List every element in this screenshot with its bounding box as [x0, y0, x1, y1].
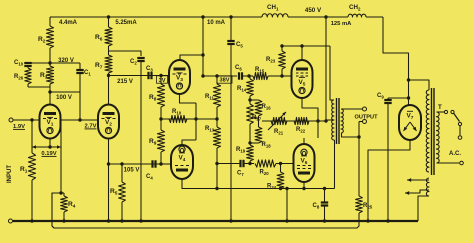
output transformer secondary — [341, 109, 343, 133]
AC terminal upper — [458, 126, 462, 139]
resistor R19 — [236, 145, 253, 165]
output transformer core — [337, 98, 340, 144]
wire secondary bottom — [342, 133, 361, 139]
resistor R5 — [110, 162, 125, 222]
svg-text:C1: C1 — [84, 70, 91, 77]
svg-text:C8: C8 — [313, 203, 320, 210]
node 320V wire — [29, 58, 80, 65]
wire V2 grid — [61, 118, 98, 193]
wire R26 return — [28, 86, 50, 88]
resistor R9 — [149, 117, 165, 165]
label 450 V — [305, 7, 322, 14]
resistor R13 — [205, 117, 221, 188]
svg-text:C3: C3 — [146, 66, 153, 73]
wire V5 grid — [282, 75, 292, 77]
svg-text:R18: R18 — [262, 142, 272, 149]
switch — [444, 110, 461, 125]
label 2.7V — [85, 124, 97, 130]
resistor R16 — [255, 100, 271, 127]
wire C6 to R15 — [243, 74, 253, 77]
svg-text:T: T — [438, 104, 442, 111]
output transformer primary — [332, 100, 334, 140]
resistor R7 — [95, 55, 112, 80]
svg-text:C10: C10 — [14, 60, 24, 67]
svg-text:C6: C6 — [235, 65, 242, 72]
wire V5 cathode — [302, 98, 320, 138]
svg-text:R19: R19 — [236, 147, 246, 154]
svg-text:R14: R14 — [237, 86, 247, 93]
svg-text:R22: R22 — [296, 127, 306, 134]
output terminal bottom — [359, 120, 367, 124]
wire C7-R20 — [245, 163, 255, 165]
wire V4 plate — [182, 179, 335, 190]
resistor R15 — [253, 67, 284, 80]
svg-text:100 V: 100 V — [56, 95, 72, 101]
svg-text:C5: C5 — [236, 42, 243, 49]
triode V3 — [169, 60, 190, 94]
wire R10 row — [161, 117, 217, 120]
svg-text:R11: R11 — [205, 94, 214, 101]
power transformer core — [432, 88, 435, 175]
svg-text:10 mA: 10 mA — [207, 20, 226, 26]
wire NFB line — [52, 193, 359, 228]
svg-text:R16: R16 — [262, 104, 272, 111]
wire rectifier to transformer — [407, 78, 429, 90]
ground terminal — [9, 219, 13, 223]
power transformer HT secondary — [426, 90, 429, 172]
svg-text:215 V: 215 V — [117, 79, 133, 85]
wire C2 branch — [109, 51, 142, 56]
triode V4 — [171, 145, 193, 179]
label A.C. — [449, 151, 461, 157]
svg-text:C9: C9 — [377, 93, 384, 100]
wire V5 plate rail — [282, 44, 330, 47]
choke CH2 — [348, 4, 366, 17]
svg-text:320 V: 320 V — [58, 58, 74, 64]
resistor R3 — [40, 63, 54, 92]
resistor R21 (pot) — [268, 112, 287, 136]
heater tap upper — [407, 178, 429, 182]
wire 10mA line — [201, 15, 204, 77]
svg-text:OUTPUT: OUTPUT — [355, 115, 379, 121]
capacitor C5 — [227, 15, 243, 222]
svg-text:R26: R26 — [14, 74, 24, 81]
capacitor C1 — [76, 63, 91, 120]
resistor R1 — [20, 118, 36, 222]
heater tap lower — [405, 190, 429, 195]
AC terminal lower — [460, 161, 464, 165]
label 10 mA — [207, 20, 226, 26]
capacitor C8 — [313, 189, 329, 223]
label INPUT — [7, 165, 13, 183]
svg-text:R13: R13 — [205, 126, 215, 133]
label 1.9V — [13, 124, 25, 130]
ground bus — [13, 220, 418, 222]
wire link — [250, 99, 259, 101]
wire V6 cathode — [303, 138, 305, 144]
pentode V6 — [294, 144, 315, 182]
node C7 wire — [217, 163, 240, 165]
wire V3 cathode — [180, 94, 197, 103]
node 215V wire — [109, 76, 170, 86]
svg-text:R23: R23 — [266, 57, 276, 64]
label 3V — [157, 76, 168, 84]
triode V2 — [98, 105, 119, 139]
wire feedback hook — [52, 193, 61, 228]
svg-text:125 mA: 125 mA — [331, 21, 352, 27]
wire bias row — [262, 119, 328, 122]
wire rail to rectifier — [383, 17, 409, 105]
wire V4 grid — [157, 163, 171, 165]
resistor R22 — [294, 117, 326, 133]
label 125 mA — [331, 21, 352, 27]
label 4.4mA — [59, 20, 78, 26]
label OUTPUT — [355, 115, 379, 121]
wire V6 plate — [304, 140, 335, 189]
svg-text:C2: C2 — [130, 59, 137, 66]
resistor R26 — [14, 66, 31, 87]
wire HT 125mA — [324, 15, 334, 121]
resistor R11 — [205, 74, 221, 119]
wire V1 cathode — [48, 139, 51, 149]
resistor R14 — [237, 76, 253, 104]
wire plate to OPT top — [330, 46, 334, 100]
svg-text:R24: R24 — [267, 184, 277, 191]
resistor R4 — [59, 191, 75, 222]
svg-text:C7: C7 — [237, 171, 244, 178]
capacitor C9 — [377, 93, 410, 223]
svg-text:C4: C4 — [146, 174, 153, 181]
svg-text:INPUT: INPUT — [7, 165, 13, 183]
svg-text:105 V: 105 V — [124, 168, 140, 174]
wire V5 plate lead — [301, 46, 303, 60]
resistor R20 — [255, 160, 294, 176]
svg-text:R15: R15 — [255, 67, 265, 74]
wire V2 cathode — [107, 139, 110, 223]
wire V7 cathode bottom — [366, 140, 410, 223]
svg-text:A.C.: A.C. — [449, 151, 461, 157]
wire mains bottom — [437, 162, 460, 164]
wire V2 plate — [108, 80, 110, 105]
output terminal top — [363, 107, 367, 111]
power transformer heater winding — [426, 178, 429, 196]
input terminal — [9, 118, 40, 122]
rectifier V7 anode arrows — [404, 122, 417, 131]
rectifier V7 — [399, 105, 421, 140]
svg-text:R21: R21 — [274, 129, 284, 136]
capacitor C10 — [14, 60, 32, 67]
capacitor C2 — [130, 58, 145, 223]
wire V3V4 cathode link — [195, 103, 197, 140]
svg-text:R20: R20 — [260, 170, 270, 177]
wire secondary top — [342, 108, 363, 110]
pentode V5 — [292, 60, 313, 98]
resistor R23 — [266, 44, 285, 76]
label 5.25mA — [115, 20, 137, 26]
power transformer primary — [437, 112, 440, 163]
capacitor C4 — [146, 160, 156, 180]
capacitor C6 — [235, 65, 242, 80]
svg-text:5.25mA: 5.25mA — [115, 20, 137, 26]
resistor R6 — [95, 15, 112, 55]
resistor R10 — [169, 109, 187, 123]
triode V1 — [40, 105, 61, 139]
node 105V wire — [109, 164, 172, 174]
node 100V wire — [48, 90, 80, 101]
resistor R18 — [248, 127, 271, 149]
resistor R24 — [267, 162, 284, 190]
resistor R2 — [38, 17, 54, 63]
svg-text:R10: R10 — [172, 109, 182, 116]
annotation 0.19V — [32, 145, 61, 157]
svg-text:450 V: 450 V — [305, 7, 322, 14]
capacitor C7 — [237, 160, 244, 177]
node 38V wire — [203, 76, 237, 84]
capacitor C3 — [146, 66, 153, 79]
label T — [438, 104, 442, 111]
svg-text:38V: 38V — [220, 78, 230, 84]
wire to ground x287 — [285, 189, 288, 223]
wire mains top — [437, 111, 445, 113]
wire top B+ rail — [50, 16, 383, 18]
wire heater CT to ground — [418, 196, 429, 221]
resistor R25 — [356, 122, 373, 214]
choke CH1 — [262, 4, 288, 17]
resistor R8 — [149, 74, 165, 119]
wire V1 plate — [49, 92, 51, 105]
svg-text:4.4mA: 4.4mA — [59, 20, 78, 26]
wire V4 cathode — [182, 140, 196, 145]
wire V3 plate — [180, 55, 203, 60]
resistor R17 (preset) — [247, 104, 262, 143]
